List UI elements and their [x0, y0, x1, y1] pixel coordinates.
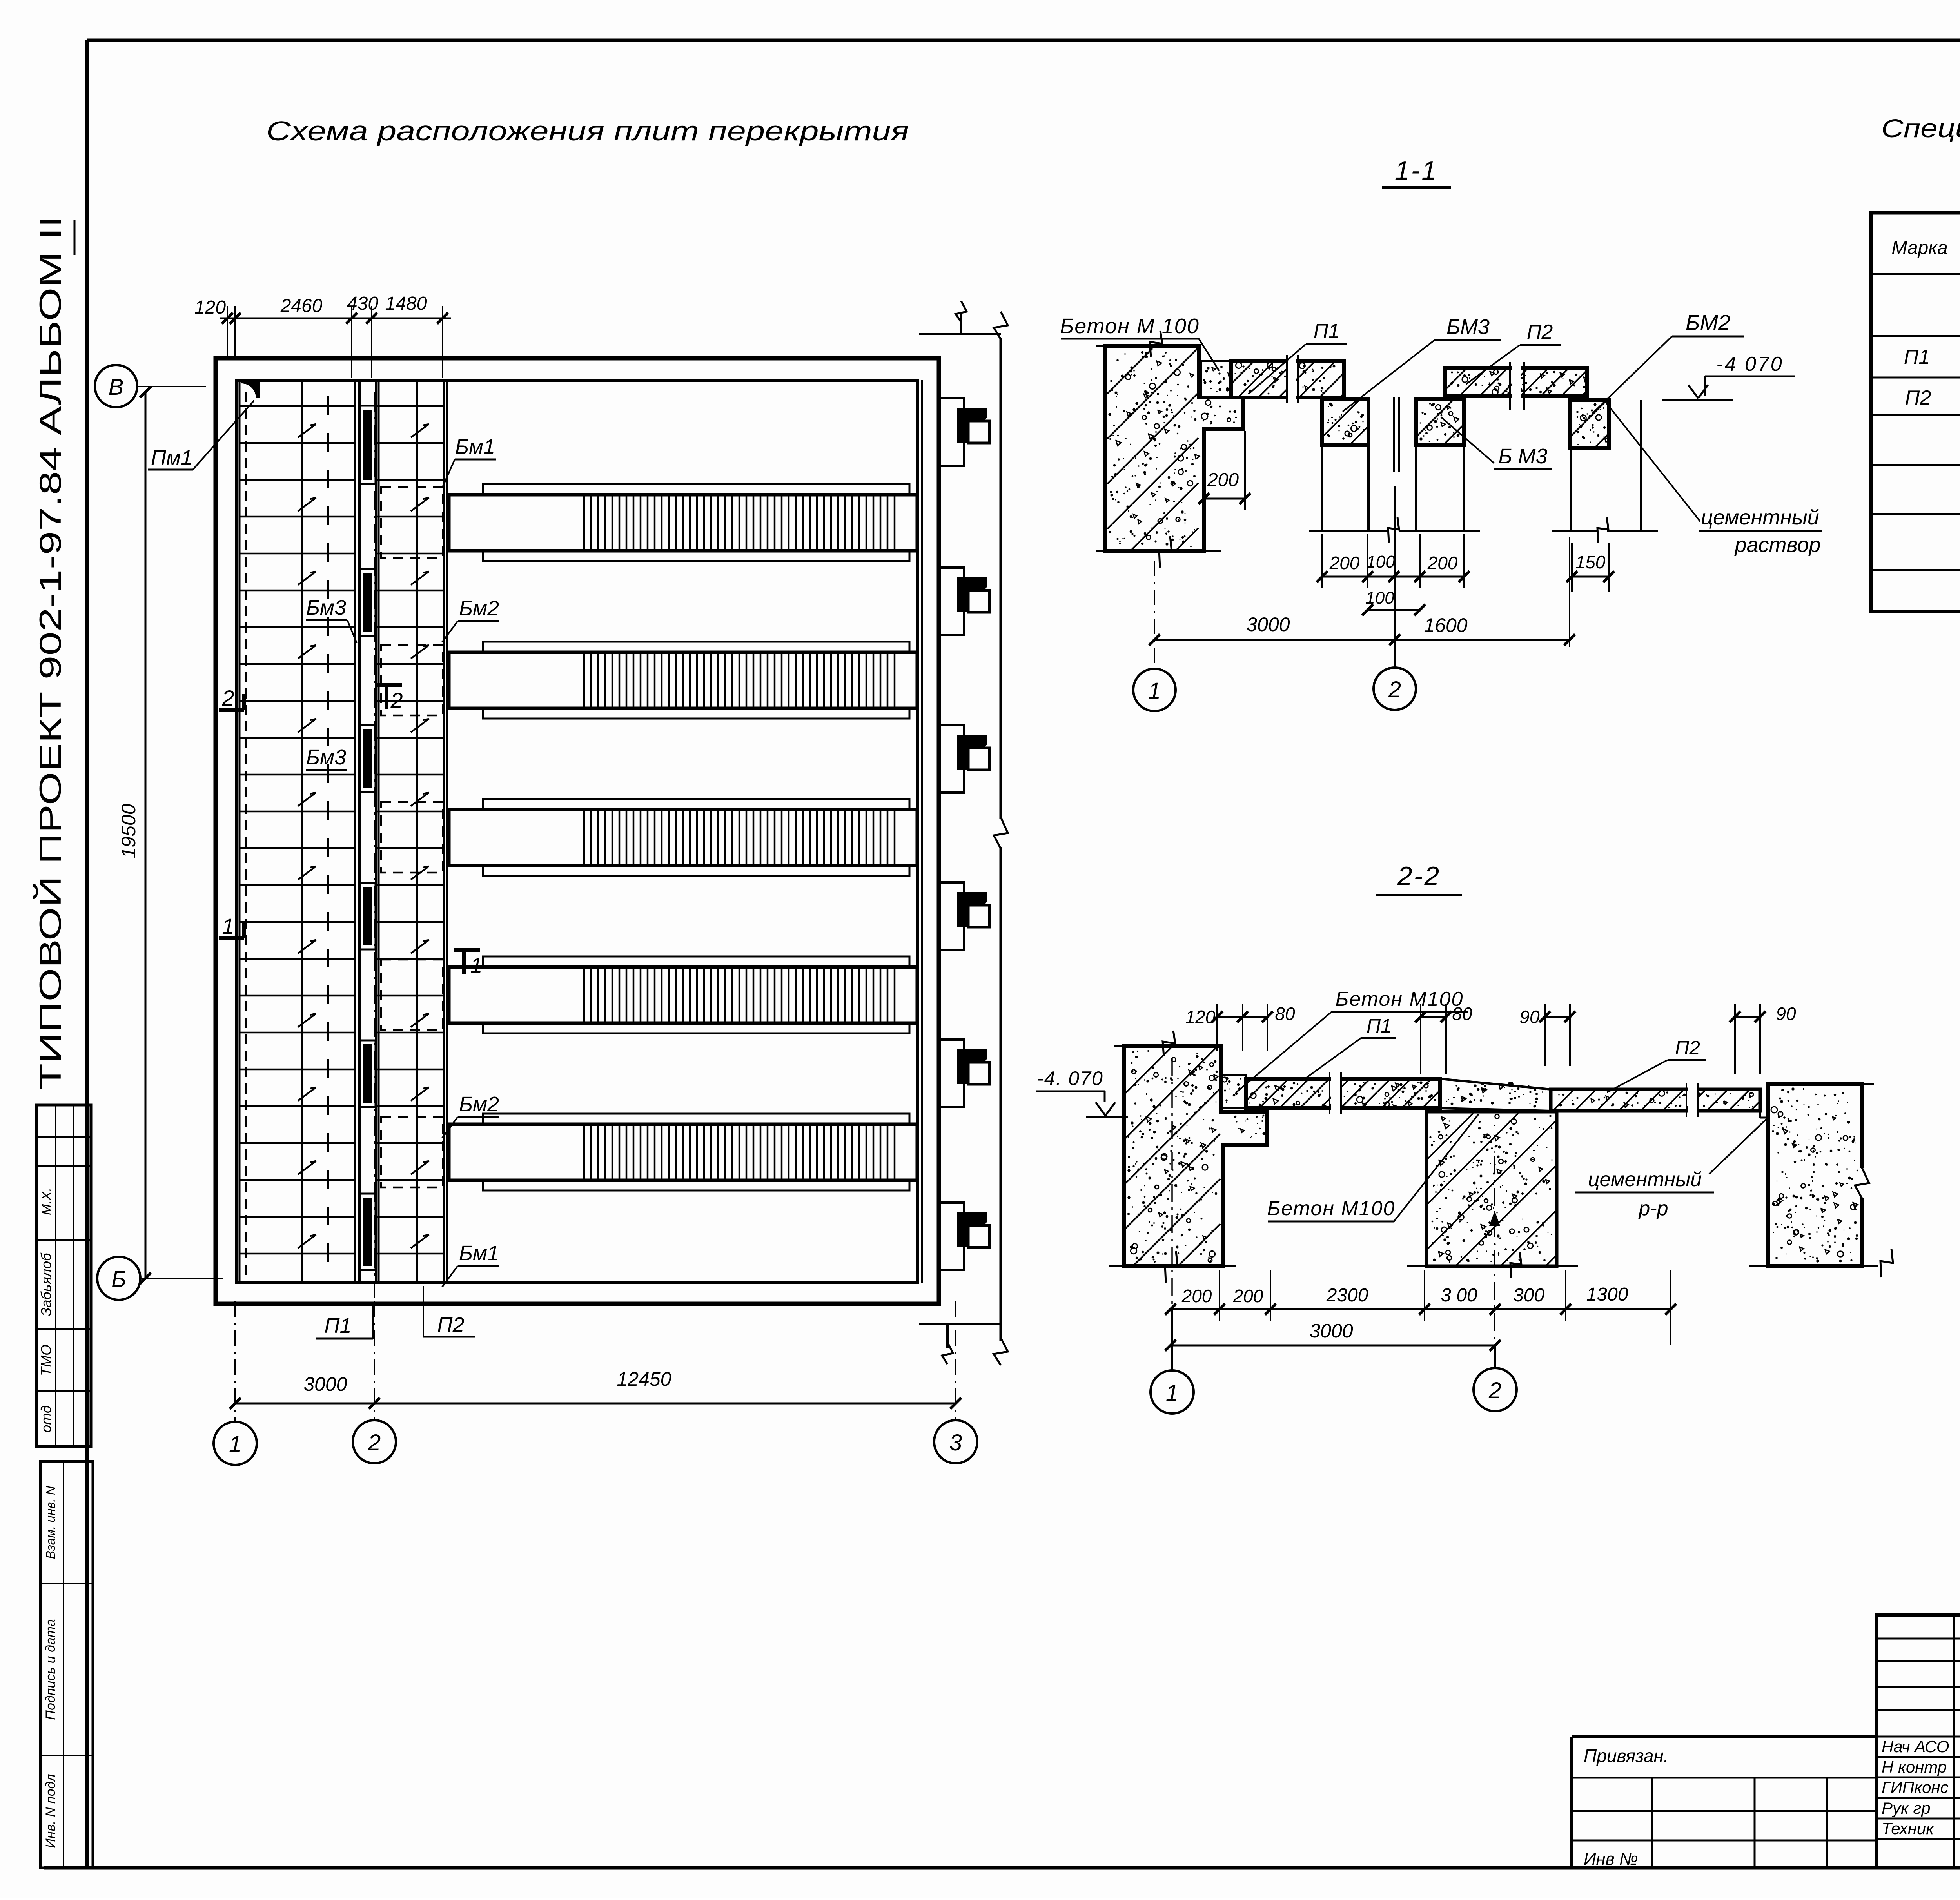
section 2-2: dim 90 mid: [1519, 1004, 1575, 1066]
svg-text:Марка: Марка: [1891, 238, 1947, 258]
svg-text:2-2: 2-2: [1397, 861, 1441, 891]
svg-text:1: 1: [470, 953, 482, 978]
svg-text:раствор: раствор: [1734, 533, 1820, 557]
svg-text:Бетон М100: Бетон М100: [1336, 988, 1464, 1011]
section 2-2: dim 90 right: [1730, 1004, 1796, 1074]
specification row P1: [1904, 345, 1960, 368]
svg-text:200: 200: [1427, 553, 1458, 573]
svg-text:р-р: р-р: [1638, 1197, 1668, 1220]
plan: top dimension line: [194, 293, 451, 378]
section 1-1: label BM3: [1343, 315, 1501, 412]
title block: names table grid: [1877, 1615, 1960, 1868]
section 2-2: dims row 200/200/2300/300/300/1300: [1165, 1270, 1676, 1345]
section 1-1: axis circle 1: [1133, 669, 1176, 711]
svg-text:Бм3: Бм3: [306, 596, 346, 619]
svg-text:Бм2: Бм2: [459, 1092, 499, 1116]
section 1-1: axis circle 2: [1374, 668, 1416, 710]
svg-text:90: 90: [1776, 1004, 1796, 1024]
svg-text:1600: 1600: [1424, 614, 1467, 636]
section 2-2: axis circle 1: [1151, 1309, 1194, 1414]
svg-text:2: 2: [221, 686, 234, 710]
section 2-2: concrete wall at axis 1: [1114, 1031, 1267, 1266]
plan: slab strip P2 edges: [376, 380, 447, 1283]
svg-text:Н контр: Н контр: [1882, 1758, 1947, 1776]
svg-text:2: 2: [390, 688, 403, 713]
svg-text:В: В: [109, 374, 124, 400]
svg-text:П2: П2: [1675, 1037, 1700, 1059]
section 1-1: elevation mark -4.070: [1662, 353, 1795, 400]
plan: P1 strip ladder lines: [240, 406, 355, 1254]
svg-text:Бетон М100: Бетон М100: [1267, 1197, 1396, 1220]
plan: label Bm1 top: [443, 435, 496, 486]
plan: axis circle 2: [353, 1420, 396, 1463]
svg-text:Подпись и дата: Подпись и дата: [43, 1619, 58, 1720]
plan: Pm1 mounting bars: [360, 406, 376, 1270]
section 1-1: mid support piers: [1322, 397, 1464, 531]
plan: label Pm1: [148, 401, 254, 470]
plan: label Bm2 first: [442, 597, 499, 642]
section 1-1: label BM2: [1592, 310, 1744, 414]
plan: label P1 bottom: [316, 1305, 373, 1339]
section 1-1: concrete wall at axis 1: [1096, 331, 1243, 568]
section 1-1: label P2: [1466, 321, 1561, 384]
svg-text:1-1: 1-1: [1395, 156, 1438, 185]
section 2-2: middle pier: [1426, 1112, 1557, 1266]
plan: slab strip P1 edges: [240, 380, 359, 1283]
section 1-1: slab P2: [1445, 362, 1589, 410]
plan: outer wall rectangle: [216, 358, 939, 1304]
section 1-1: beam BM2 block: [1570, 400, 1609, 448]
svg-text:Пм1: Пм1: [151, 446, 192, 470]
plan: axis circle B: [97, 1257, 140, 1300]
plan: left dimension 19500: [118, 387, 223, 1284]
section 1-1: label cement mortar: [1604, 401, 1822, 557]
svg-text:12450: 12450: [617, 1368, 671, 1390]
section 2-2: ground lines: [1109, 1249, 1893, 1283]
svg-text:200: 200: [1233, 1286, 1263, 1306]
svg-text:П2: П2: [437, 1313, 464, 1337]
svg-text:отд: отд: [38, 1405, 54, 1433]
plan: right-side piers and anchors: [939, 398, 989, 1270]
section 2-2: label P1: [1302, 1015, 1396, 1081]
svg-text:3000: 3000: [303, 1373, 347, 1395]
title block: roles and names: [1882, 1737, 1960, 1838]
svg-text:2460: 2460: [280, 296, 323, 316]
svg-text:2: 2: [1488, 1378, 1501, 1403]
section 2-2 title: [1376, 861, 1462, 895]
svg-text:3: 3: [949, 1430, 962, 1455]
plan: label Bm3 second: [306, 746, 347, 770]
svg-text:2: 2: [1388, 677, 1401, 702]
section 1-1: ground lines: [1309, 517, 1658, 543]
svg-text:3000: 3000: [1246, 613, 1290, 635]
plan: section mark 2 (right): [376, 685, 403, 713]
svg-text:3 00: 3 00: [1441, 1285, 1477, 1306]
plan: axis 2 dash-dot line: [374, 392, 375, 1298]
svg-text:Б М3: Б М3: [1498, 445, 1547, 468]
plan: section mark 1 (right): [454, 950, 483, 978]
svg-text:2300: 2300: [1326, 1285, 1368, 1306]
svg-text:3000: 3000: [1309, 1320, 1353, 1342]
section 2-2: taper topping: [1440, 1079, 1551, 1111]
svg-text:М.Х.: М.Х.: [39, 1188, 54, 1215]
plan: section mark 2 (left): [219, 686, 244, 710]
svg-text:200: 200: [1181, 1286, 1212, 1306]
svg-text:Спецификация к схеме расположе: Спецификация к схеме расположения плит п…: [1881, 114, 1960, 143]
svg-text:П1: П1: [324, 1314, 351, 1337]
plan: axis circle 1: [214, 1422, 257, 1465]
svg-text:80: 80: [1275, 1004, 1295, 1024]
svg-text:1: 1: [1148, 678, 1161, 704]
plan: slab diagonal marks: [298, 424, 429, 1248]
section 1-1 title: [1382, 156, 1451, 187]
title block: privyazan block: [1572, 1737, 1877, 1869]
svg-text:Бетон М 100: Бетон М 100: [1060, 314, 1200, 338]
plan: label Bm1 bottom: [442, 1241, 499, 1287]
section 1-1: dimensions 3000/1600: [1149, 486, 1575, 668]
plan: section mark 1 (left): [219, 914, 244, 938]
section 2-2: slab P2: [1551, 1083, 1768, 1118]
left margin inventory table: [40, 1461, 93, 1868]
svg-text:150: 150: [1575, 552, 1606, 572]
section 2-2: right wall: [1768, 1084, 1874, 1266]
section 1-1: slab P1: [1231, 355, 1344, 403]
section 2-2: label P2: [1607, 1037, 1706, 1092]
svg-text:1: 1: [222, 914, 234, 938]
svg-text:430: 430: [347, 293, 378, 314]
svg-text:-4. 070: -4. 070: [1037, 1067, 1103, 1089]
svg-text:1: 1: [1166, 1380, 1178, 1406]
specification table grid: [1871, 213, 1960, 612]
section 1-1: dimension 200 at wall: [1198, 431, 1250, 510]
plan: beams Bm with vertical hatch: [449, 484, 917, 1190]
plan: axis circle V: [95, 365, 137, 407]
svg-text:П1: П1: [1904, 346, 1930, 368]
section 2-2: axis circle 2: [1474, 1345, 1517, 1411]
svg-text:Привязан.: Привязан.: [1584, 1746, 1669, 1766]
section 1-1: label BM3 lower: [1441, 417, 1552, 469]
section 2-2: label Beton M100 lower: [1267, 1114, 1479, 1221]
svg-text:2: 2: [368, 1430, 381, 1455]
svg-text:-4 070: -4 070: [1716, 353, 1783, 376]
specification row P2: [1905, 386, 1960, 411]
svg-text:Рук гр: Рук гр: [1882, 1799, 1931, 1817]
svg-text:ТМО: ТМО: [38, 1345, 54, 1376]
svg-text:Инв. N подл: Инв. N подл: [43, 1774, 58, 1848]
section 1-1: beam BM3 left block: [1322, 399, 1368, 445]
svg-text:П2: П2: [1905, 387, 1931, 409]
section 1-1: label Beton M100: [1060, 314, 1219, 371]
svg-text:19500: 19500: [118, 804, 140, 858]
left margin approvals table: [36, 1105, 91, 1446]
svg-text:1: 1: [229, 1432, 241, 1457]
svg-text:БМ2: БМ2: [1686, 310, 1730, 335]
section 2-2: dim 3000: [1165, 1320, 1501, 1351]
svg-text:Бм1: Бм1: [455, 435, 495, 459]
section 2-2: axis dash lines: [1172, 1058, 1500, 1368]
svg-text:120: 120: [1185, 1007, 1216, 1027]
svg-text:90: 90: [1519, 1007, 1540, 1027]
section 1-1: beam BM3 right block: [1416, 399, 1464, 445]
plan: P2 strip ladder lines: [376, 406, 444, 1254]
svg-text:Схема расположения плит перекр: Схема расположения плит перекрытия: [266, 116, 909, 146]
specification table header: [1891, 234, 1960, 259]
svg-text:120: 120: [194, 297, 226, 318]
svg-text:1480: 1480: [385, 293, 427, 314]
plan: label Bm3 first: [306, 596, 357, 643]
plan: label P2 bottom: [423, 1286, 475, 1337]
svg-text:100: 100: [1366, 552, 1395, 572]
plan: corner embed marker: [241, 382, 260, 398]
svg-text:Взам. инв. N: Взам. инв. N: [44, 1486, 58, 1559]
svg-text:Бм1: Бм1: [459, 1241, 499, 1265]
section 1-1: right pier: [1571, 400, 1641, 531]
section 1-1: dimension 150: [1566, 543, 1614, 592]
left margin stamp: TYPICAL PROJECT 902-1-97.84 ALBUM II: [33, 216, 67, 1090]
svg-text:100: 100: [1365, 588, 1394, 608]
section 1-1: label P1: [1249, 320, 1347, 394]
svg-text:БМ3: БМ3: [1446, 315, 1490, 339]
plan: axis circle 3: [934, 1420, 977, 1463]
section 2-2: dim 80 mid: [1415, 1004, 1472, 1074]
section 2-2: elevation mark -4.070: [1036, 1067, 1128, 1117]
svg-text:П1: П1: [1367, 1015, 1392, 1037]
svg-text:цементный: цементный: [1588, 1168, 1702, 1191]
svg-text:Бм2: Бм2: [459, 597, 499, 620]
section 2-2: label Beton M100 top: [1236, 988, 1468, 1093]
section 2-2: label cement mortar: [1575, 1118, 1767, 1220]
svg-text:80: 80: [1452, 1004, 1472, 1024]
plan: far wall offset line with breaks: [919, 301, 1008, 1365]
section 1-1: dimensions 200/100/200: [1317, 534, 1470, 615]
svg-text:П2: П2: [1527, 321, 1553, 343]
svg-text:цементный: цементный: [1701, 506, 1819, 529]
plan: label Bm2 second: [442, 1092, 499, 1138]
left margin stamp underline under II: [74, 220, 76, 255]
section 1-1: cast joint (Beton M100) at wall: [1201, 361, 1232, 397]
svg-text:П1: П1: [1314, 320, 1340, 343]
svg-text:Б: Б: [111, 1267, 126, 1292]
svg-text:Бм3: Бм3: [306, 746, 346, 769]
section 2-2: slab P1: [1246, 1072, 1440, 1114]
svg-text:Инв №: Инв №: [1584, 1849, 1638, 1869]
plan: hidden beam outlines (dashed) in P2 strip: [381, 487, 443, 1187]
plan: bottom dimension line: [230, 1301, 961, 1422]
section 2-2: cast joint at wall: [1221, 1075, 1246, 1108]
svg-text:Забьялоб: Забьялоб: [38, 1252, 54, 1316]
svg-text:Техник: Техник: [1882, 1819, 1935, 1838]
svg-text:200: 200: [1207, 470, 1239, 490]
svg-text:Нач АСО: Нач АСО: [1882, 1737, 1949, 1756]
svg-text:ТИПОВОЙ ПРОЕКТ 902-1-97.84: ТИПОВОЙ ПРОЕКТ 902-1-97.84 АЛЬБОМ II: [33, 216, 67, 1090]
section 2-2: dims 120/80 left: [1185, 1004, 1295, 1051]
svg-text:ГИПконс: ГИПконс: [1882, 1778, 1949, 1797]
svg-text:300: 300: [1513, 1285, 1544, 1306]
svg-text:200: 200: [1329, 553, 1360, 573]
svg-text:1300: 1300: [1586, 1284, 1628, 1305]
plan: inner right wall doubled line: [921, 380, 923, 1283]
